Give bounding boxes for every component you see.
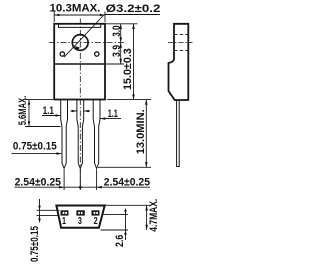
front view top step line [59, 24, 101, 28]
lead 1 (left) [61, 100, 68, 169]
dimension 4.7MAX extension line [106, 204, 151, 206]
side view hole centerline [168, 42, 193, 44]
dimension 2.6 extension lines [102, 214, 129, 216]
dimension 10.3MAX extension lines [53, 12, 55, 23]
svg-text:Ø3.2±0.2: Ø3.2±0.2 [106, 3, 161, 15]
bottom view pin 3 [76, 210, 84, 215]
dimension 1.1 right leader [101, 118, 122, 120]
dimension 0.75±0.15 (bottom view) extension lines [37, 209, 60, 211]
svg-text:2.6: 2.6 [114, 235, 126, 247]
svg-text:1.1: 1.1 [108, 108, 118, 120]
front view body outline [54, 24, 105, 100]
dimension 3.9 line [120, 43, 122, 65]
lead 3 (right) [93, 100, 100, 169]
dimension 3.0 line [120, 24, 122, 43]
svg-text:1: 1 [62, 216, 66, 227]
extension line at divider for 3.9 [106, 63, 124, 65]
bottom view pin 1 [61, 210, 69, 215]
small hole right [95, 52, 99, 56]
svg-text:3: 3 [78, 216, 82, 227]
svg-text:2.54±0.25: 2.54±0.25 [104, 177, 150, 189]
dimension 1.1 left leader [42, 115, 60, 117]
svg-text:1.1: 1.1 [43, 105, 54, 117]
side view lead [177, 100, 180, 167]
svg-text:5.6MAX.: 5.6MAX. [17, 96, 29, 126]
dimension 15.0±0.3 line [133, 24, 135, 100]
svg-text:3.0: 3.0 [111, 25, 123, 36]
dimension 0.75±0.15 leader (front) [12, 153, 62, 155]
dimension 5.6MAX extension lines [25, 99, 53, 101]
dimension 0.75±0.15 (bottom view) line and arrows [39, 199, 41, 223]
vertical centerline [79, 19, 81, 190]
horizontal centerline through hole [49, 42, 124, 44]
dimension 10.3MAX line [54, 14, 105, 16]
svg-text:3.9: 3.9 [111, 45, 123, 57]
bottom view pin 2 [92, 210, 100, 215]
dimension 5.6MAX line [28, 100, 30, 127]
svg-text:2.54±0.25: 2.54±0.25 [15, 177, 61, 189]
small hole left [60, 52, 64, 56]
bottom view trapezoid [56, 206, 104, 228]
svg-text:0.75±0.15: 0.75±0.15 [13, 141, 57, 153]
dimension 4.7MAX line [146, 205, 148, 230]
side view hidden hole lines [174, 34, 188, 36]
svg-text:13.0MIN.: 13.0MIN. [135, 109, 147, 154]
mounting hole [72, 35, 88, 51]
hole diameter leader line [64, 15, 104, 58]
extension line top right (package top) [106, 23, 138, 25]
dimension 13.0MIN line [145, 100, 147, 168]
svg-text:10.3MAX.: 10.3MAX. [50, 2, 101, 14]
svg-text:15.0±0.3: 15.0±0.3 [122, 48, 134, 90]
extension line bottom right (package bottom, shared 15.0 / 13.0) [107, 99, 151, 101]
dimension 1.1 middle arrows [71, 110, 77, 112]
extension lines lead centers to 2.54 dim [63, 170, 65, 191]
svg-text:2: 2 [94, 216, 98, 227]
side view outline [169, 24, 189, 100]
front view tab/body divider line [54, 63, 105, 65]
extension line lead tips (13.0 bottom) [98, 166, 151, 168]
lead 2 (middle) [77, 100, 84, 169]
dimension 2.6 line and arrows [125, 209, 127, 241]
svg-text:0.75±0.15: 0.75±0.15 [29, 226, 41, 262]
svg-text:4.7MAX.: 4.7MAX. [148, 199, 160, 232]
dimension 2.54 line [15, 186, 151, 188]
